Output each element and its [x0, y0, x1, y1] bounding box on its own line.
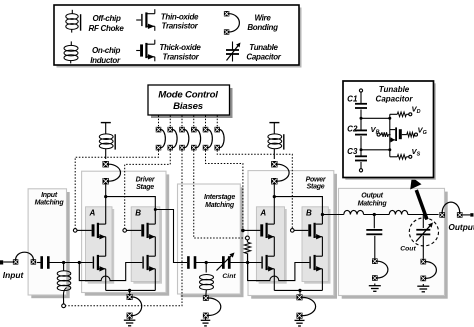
- legend thick-oxide transistor symbol: [136, 40, 155, 62]
- svg-text:Thin-oxide: Thin-oxide: [161, 12, 199, 21]
- wire driver A cascode source to input device drain: [105, 237, 107, 257]
- svg-text:Cout: Cout: [400, 246, 416, 253]
- driver branch A box: [86, 207, 115, 284]
- driver supply node: [104, 195, 107, 198]
- wire power output to matching network: [322, 214, 343, 216]
- wire bond output shunt cap to ground: [372, 258, 388, 280]
- wire bond WB3 mode bias: [179, 127, 189, 151]
- driver stage block box: [82, 171, 170, 296]
- wire bond WB2 mode bias: [168, 127, 178, 151]
- wire C3 to bottom terminal: [360, 162, 362, 169]
- driver output tap node: [154, 208, 157, 211]
- dashed bias stubs from mode box: [159, 116, 218, 127]
- bias node power cascode A: [241, 229, 245, 233]
- power input A thin-oxide transistor: [261, 255, 274, 272]
- legend thin-oxide transistor symbol: [136, 9, 155, 31]
- wire choke to bond pad power: [273, 149, 275, 160]
- wire bond WB5 mode bias: [203, 127, 213, 151]
- svg-text:Bonding: Bonding: [247, 23, 278, 32]
- wire input cap to gate line: [49, 262, 93, 264]
- wire bond interstage inductor to ground: [203, 295, 221, 318]
- legend label Tunable Capacitor: [246, 43, 281, 62]
- svg-text:Input: Input: [41, 192, 58, 199]
- wire power gate feed to branch B with hopover: [248, 263, 310, 281]
- dashed bias net to power cascode A: [206, 150, 243, 229]
- wire node1 to switch drain: [361, 117, 390, 119]
- wire Cout to bond pad: [422, 236, 424, 259]
- inset bottom terminal: [359, 169, 362, 172]
- capacitor C2: [355, 130, 367, 136]
- wire bond Cout to ground: [421, 259, 437, 281]
- wire bond power source to ground: [299, 290, 301, 293]
- label Driver Stage: [136, 176, 156, 191]
- on-chip inductor output L2: [389, 210, 408, 214]
- callout arrow from Cout to inset: [416, 190, 427, 220]
- legend label Wire Bonding: [247, 13, 278, 32]
- output shunt node: [373, 213, 376, 216]
- power output tap node: [321, 213, 324, 216]
- dashed bias net to power input-bias resistor: [194, 150, 245, 238]
- svg-text:Wire: Wire: [254, 13, 271, 22]
- wire bond to driver drain node: [105, 184, 107, 197]
- wire to output terminal: [463, 214, 471, 216]
- wire capacitor to bond pad: [374, 236, 376, 259]
- legend tunable capacitor symbol: [226, 42, 241, 62]
- wire bond driver source to ground: [129, 290, 131, 293]
- interstage shunt node: [205, 261, 208, 264]
- interstage matching block box: [178, 184, 244, 297]
- dashed highlight circle around Cout: [409, 218, 438, 246]
- tunable capacitor Cout: [416, 223, 433, 242]
- svg-text:Stage: Stage: [307, 184, 325, 191]
- power input B thin-oxide transistor: [309, 255, 322, 272]
- label Power Stage: [306, 176, 327, 190]
- power branch A box: [256, 207, 286, 284]
- power common source wire: [274, 289, 322, 291]
- power branch B box: [302, 207, 331, 284]
- power input gate split node: [246, 261, 249, 264]
- bias node driver cascode B: [123, 229, 127, 233]
- svg-text:Matching: Matching: [358, 200, 388, 207]
- wire interstage cap to node: [196, 262, 222, 264]
- VS bias branch with resistor: [390, 156, 398, 158]
- wire C2 to node2: [360, 136, 362, 156]
- driver cascode B thick-oxide transistor: [127, 223, 156, 240]
- label Interstage Matching: [204, 194, 235, 209]
- svg-text:Output: Output: [361, 193, 383, 200]
- driver branch B box: [131, 207, 162, 284]
- wire L2 to Cout node: [408, 214, 439, 216]
- wire inset rail C1: [360, 92, 362, 103]
- legend label Off-chip RF Choke: [89, 14, 125, 33]
- off-chip RF choke power: [268, 134, 282, 149]
- wire bond input: [13, 252, 36, 264]
- svg-text:Matching: Matching: [205, 202, 235, 209]
- wire bond to power drain node: [273, 184, 275, 197]
- svg-text:Transistor: Transistor: [162, 21, 199, 30]
- svg-text:Mode Control: Mode Control: [158, 89, 218, 100]
- driver common source wire: [106, 289, 156, 291]
- dashed bias net to driver cascode B: [125, 150, 171, 228]
- label Output Matching: [358, 193, 388, 208]
- on-chip shunt inductor interstage: [200, 275, 214, 290]
- dashed bias net to power cascode B: [217, 150, 292, 228]
- dashed bias net to driver cascode A: [75, 150, 158, 228]
- inset MOSFET switch: [390, 127, 402, 142]
- wire VDD to driver choke: [105, 123, 107, 135]
- svg-text:Power: Power: [306, 176, 327, 183]
- wire Cint to power gate node: [230, 262, 261, 264]
- wire driver supply to branch A drain: [105, 197, 107, 225]
- wire interstage node to shunt inductor: [205, 263, 207, 273]
- svg-text:Transistor: Transistor: [163, 53, 200, 62]
- wire bond to input cap: [37, 262, 41, 264]
- wire power B source down: [321, 269, 323, 291]
- input matching block box: [28, 189, 70, 298]
- choke core bar driver: [114, 134, 116, 149]
- wire bond WB1 mode bias: [156, 127, 166, 151]
- ground output shunt cap: [369, 284, 381, 292]
- wire power B cascode source to input device drain: [321, 237, 323, 257]
- wire power A source down: [273, 269, 275, 291]
- ground Cout: [417, 284, 429, 292]
- inset node2: [360, 148, 363, 151]
- driver common source node: [128, 289, 131, 292]
- wire Cout node to tunable cap: [422, 215, 424, 229]
- wire inductor to bias terminal: [63, 288, 66, 304]
- svg-text:Inductor: Inductor: [90, 56, 121, 65]
- svg-text:B: B: [306, 209, 312, 218]
- legend label Thin-oxide Transistor: [161, 12, 199, 30]
- power VDD terminal bar: [269, 122, 279, 124]
- bias node power cascode B: [291, 229, 295, 233]
- svg-text:Off-chip: Off-chip: [92, 14, 121, 23]
- label Mode Control Biases: [158, 89, 218, 112]
- shunt capacitor output matching: [366, 229, 382, 235]
- wire node2 to switch source: [361, 149, 390, 151]
- inset switch drain-source rail: [389, 114, 391, 157]
- choke core bar power: [283, 134, 285, 149]
- svg-text:C2: C2: [347, 125, 358, 134]
- ground driver source: [124, 318, 136, 326]
- legend label Thick-oxide Transistor: [159, 43, 201, 62]
- series capacitor interstage: [187, 256, 196, 269]
- svg-text:Cint: Cint: [222, 273, 236, 280]
- wire driver gate feed to branch B with hopover: [79, 263, 142, 281]
- wire power supply rail to branch B: [274, 197, 322, 215]
- svg-text:C1: C1: [347, 95, 358, 104]
- bias feed terminal below input inductor: [62, 304, 66, 308]
- VD bias branch with resistor: [390, 113, 398, 115]
- driver input gate split node: [78, 261, 81, 264]
- label Input Matching: [35, 192, 65, 207]
- wire input terminal to bond: [3, 261, 13, 263]
- legend box: [57, 8, 302, 68]
- wire node to shunt inductor: [63, 263, 65, 272]
- capacitor C3: [355, 155, 367, 161]
- svg-text:Driver: Driver: [136, 176, 156, 183]
- legend wire bonding symbol: [224, 11, 240, 35]
- mode control biases box: [151, 88, 233, 118]
- power cascode B thick-oxide transistor: [294, 223, 322, 240]
- input shunt node: [62, 261, 65, 264]
- power stage block box: [248, 171, 337, 299]
- wire choke to bond pad driver: [105, 149, 107, 160]
- ground power source: [295, 318, 305, 326]
- svg-text:Matching: Matching: [35, 200, 65, 207]
- svg-text:Interstage: Interstage: [204, 194, 235, 201]
- svg-text:Thick-oxide: Thick-oxide: [159, 43, 201, 52]
- wire VDD to power choke: [273, 123, 275, 135]
- svg-text:Output: Output: [448, 222, 474, 232]
- wire driver B cascode source to input device drain: [154, 237, 156, 257]
- svg-text:Tunable: Tunable: [379, 85, 410, 94]
- ground interstage: [201, 318, 211, 326]
- output matching block box: [339, 188, 448, 298]
- bias node driver cascode A: [73, 229, 77, 233]
- svg-text:Input: Input: [3, 270, 25, 280]
- on-chip inductor output L1: [344, 210, 364, 214]
- power common source node: [298, 289, 301, 292]
- legend on-chip inductor symbol: [64, 41, 78, 63]
- wire power supply to branch A drain: [273, 197, 275, 225]
- label Tunable Capacitor inset title: [376, 85, 414, 104]
- wire C1 to node1: [360, 110, 362, 131]
- svg-text:A: A: [259, 209, 266, 218]
- svg-text:Stage: Stage: [136, 184, 154, 191]
- legend off-chip RF choke symbol: [66, 10, 81, 33]
- capacitor C1: [355, 103, 367, 109]
- inset node1: [360, 117, 363, 120]
- driver cascode A thick-oxide transistor: [77, 223, 106, 240]
- power cascode A thick-oxide transistor: [245, 223, 275, 240]
- svg-text:B: B: [135, 209, 141, 218]
- wire L1 to shunt node: [364, 214, 390, 216]
- off-chip RF choke driver: [99, 134, 113, 149]
- svg-text:Biases: Biases: [173, 101, 203, 112]
- wire bond WB6 mode bias: [215, 127, 225, 151]
- wire power branch B drain: [321, 215, 323, 225]
- wire driver supply rail to branch B: [106, 197, 156, 210]
- wire bond power supply: [271, 161, 289, 184]
- tunable capacitor inset box: [345, 83, 436, 180]
- legend label On-chip Inductor: [90, 46, 121, 65]
- wire branch B drain: [154, 210, 156, 225]
- svg-text:C3: C3: [347, 147, 358, 156]
- svg-text:RF Choke: RF Choke: [89, 24, 125, 33]
- driver input B thin-oxide transistor: [142, 255, 155, 272]
- svg-text:On-chip: On-chip: [92, 46, 121, 55]
- dashed bias net to input-matching inductor feed: [66, 150, 182, 305]
- output terminal: [470, 213, 473, 216]
- svg-text:Capacitor: Capacitor: [376, 95, 414, 104]
- series capacitor input matching: [40, 256, 49, 269]
- wire driver output tap: [155, 210, 187, 263]
- wire shunt node to capacitor: [373, 215, 375, 229]
- bias resistor power input gate: [246, 236, 250, 240]
- VB bias branch with resistor: [377, 133, 380, 136]
- svg-text:A: A: [89, 209, 96, 218]
- input terminal: [0, 260, 3, 264]
- wire bond driver supply: [103, 161, 121, 184]
- on-chip shunt inductor input matching: [57, 271, 71, 291]
- wire bond WB4 mode bias: [191, 127, 201, 151]
- tunable capacitor Cint: [217, 253, 235, 271]
- driver input A thin-oxide transistor: [93, 255, 106, 272]
- svg-text:Tunable: Tunable: [249, 43, 278, 52]
- svg-text:Capacitor: Capacitor: [246, 52, 281, 61]
- power supply node: [273, 195, 276, 198]
- wire driver A source down: [105, 269, 107, 291]
- inset top terminal: [359, 89, 362, 92]
- driver VDD terminal bar: [101, 122, 111, 124]
- wire driver B source down: [154, 269, 156, 291]
- VG bias branch with resistor: [402, 134, 407, 136]
- wire power A cascode source to input device drain: [273, 237, 275, 257]
- wire inductor to bond pad interstage: [205, 290, 207, 296]
- wire bond output: [439, 202, 462, 218]
